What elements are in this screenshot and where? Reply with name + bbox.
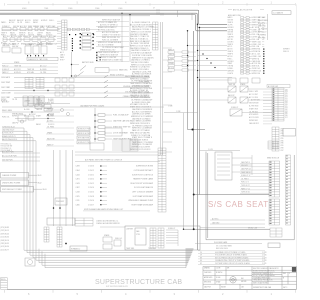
svg-text:1 C84 7: 1 C84 7 — [88, 204, 94, 206]
mid strip x45-75 rows — [46, 108, 74, 147]
svg-text:WIPER LO: WIPER LO — [258, 32, 267, 34]
seat wire rows — [240, 164, 269, 194]
svg-text:1 C84 4: 1 C84 4 — [88, 187, 94, 189]
svg-text:OIL PRE: OIL PRE — [40, 72, 46, 74]
left connector grids beside gauge rows — [25, 78, 44, 89]
svg-text:HORN RLY PWR: HORN RLY PWR — [78, 142, 91, 144]
left drop wire labels — [2, 126, 17, 141]
seat connector ladder upper — [269, 161, 280, 197]
svg-text:FUEL L: FUEL L — [1, 34, 6, 36]
svg-text:CRANE POWER ON INDICATOR: CRANE POWER ON INDICATOR — [123, 95, 150, 98]
svg-text:X17: X17 — [285, 117, 288, 119]
svg-text:IGN SW: IGN SW — [13, 26, 20, 28]
svg-text:C418: C418 — [76, 192, 80, 194]
svg-text:X11: X11 — [285, 106, 288, 108]
svg-text:ENGINE OIL PRESSURE GAGE: ENGINE OIL PRESSURE GAGE — [123, 85, 149, 88]
svg-text:W86: W86 — [281, 143, 284, 145]
svg-text:FUEL LV: FUEL LV — [283, 51, 289, 53]
svg-text:CTRL: CTRL — [136, 234, 140, 236]
left harness drop wires — [2, 128, 36, 260]
wire list note rows — [200, 251, 266, 265]
module internal wires — [100, 227, 178, 246]
mid-left small labels — [2, 101, 54, 119]
relay cluster K10 — [228, 86, 248, 116]
title block dark corner cell — [292, 267, 296, 272]
accessory branch fuse 2 — [94, 120, 130, 123]
svg-text:B+ FEE: B+ FEE — [48, 99, 54, 101]
ladder mid labels — [281, 128, 284, 152]
center column stub wires — [163, 48, 172, 152]
output circuit WINDSHIELD WASHER PUMP — [76, 199, 154, 202]
svg-text:S/S CAB SEAT: S/S CAB SEAT — [208, 200, 269, 209]
svg-text:59: 59 — [200, 255, 202, 257]
vertical bus drop D — [193, 31, 195, 229]
svg-text:FUEL L: FUEL L — [37, 44, 42, 46]
svg-text:J DOE: J DOE — [216, 268, 220, 270]
fuse panel rows — [228, 16, 265, 75]
svg-text:X65: X65 — [285, 113, 288, 115]
seat connector ladder lower — [269, 199, 280, 225]
svg-text:X30: X30 — [285, 115, 288, 117]
center column vertical pair — [160, 22, 162, 155]
svg-text:DOME LP: DOME LP — [231, 107, 238, 109]
connector grid C12 — [122, 139, 138, 151]
mid cluster circles — [61, 109, 70, 116]
wires into C12 — [112, 140, 122, 150]
svg-text:(285) W-35: (285) W-35 — [1, 243, 9, 245]
vertical stub x192 — [191, 13, 193, 20]
svg-text:LIGHTE: LIGHTE — [24, 101, 30, 103]
svg-text:TEMP S: TEMP S — [228, 54, 234, 56]
svg-text:SWITCHED ACC POWER: SWITCHED ACC POWER — [2, 188, 23, 191]
svg-text:FUEL LVL: FUEL LVL — [115, 238, 122, 240]
vertical stub x177 — [177, 10, 179, 17]
seat right tall ladder — [286, 155, 291, 225]
svg-text:WIPER: WIPER — [1, 99, 7, 101]
title block grid — [203, 267, 297, 290]
svg-text:OIL PRES: OIL PRES — [47, 115, 54, 117]
svg-text:FLOODLIGHT BEACON: FLOODLIGHT BEACON — [134, 186, 154, 189]
center column ladder top — [153, 22, 159, 50]
svg-text:HORN R: HORN R — [1, 101, 8, 103]
svg-text:IGN SW 1: IGN SW 1 — [241, 165, 248, 167]
svg-text:OIL PR: OIL PR — [37, 42, 43, 44]
svg-text:1 C84 2: 1 C84 2 — [88, 179, 94, 181]
gauge circuit row RACK TEMPERATURE GAGE — [1, 75, 150, 79]
svg-text:W46: W46 — [281, 140, 284, 142]
svg-text:WIPER LO 3 C70 DOOR S: WIPER LO 3 C70 DOOR S — [130, 149, 151, 151]
svg-text:MAIN DISC: MAIN DISC — [119, 69, 129, 72]
gauge circuit row FUEL GAGE — [1, 80, 150, 84]
svg-text:OIL PRES: OIL PRES — [47, 127, 54, 129]
ladder header box — [267, 85, 290, 88]
relay cluster feed wires — [200, 89, 273, 113]
svg-text:89: 89 — [200, 257, 202, 259]
svg-text:SYS 44 IGN SW: SYS 44 IGN SW — [1, 146, 13, 148]
svg-text:R SMITH: R SMITH — [216, 272, 222, 274]
svg-text:C498: C498 — [76, 166, 80, 168]
svg-text:WIPER W61: WIPER W61 — [249, 120, 258, 122]
pins under relay cluster — [27, 55, 44, 56]
box cluster y128-150 — [90, 128, 122, 150]
gauge circuit row CRANE POWER ON INDICATOR — [1, 95, 150, 99]
mid-right upper cluster — [228, 78, 260, 83]
lower-left component box — [47, 218, 75, 225]
svg-text:DIAGNOSTIC TAP CONN: DIAGNOSTIC TAP CONN — [28, 58, 48, 61]
svg-text:SUPERSTRUCTURE CAB: SUPERSTRUCTURE CAB — [95, 279, 182, 286]
svg-text:IGN SW: IGN SW — [12, 46, 19, 48]
component row 2 top-left — [3, 35, 57, 41]
svg-text:WIPER: WIPER — [12, 115, 18, 117]
main bus junction at y129 — [188, 128, 206, 130]
vertical bus drop C — [199, 28, 201, 195]
svg-text:HEATER POWER CABIN: HEATER POWER CABIN — [133, 178, 154, 181]
center label column text block — [130, 21, 155, 151]
svg-text:C463 DOME: C463 DOME — [1, 93, 11, 95]
svg-text:FUEL LVL: FUEL LVL — [2, 117, 10, 119]
svg-text:WIPER H: WIPER H — [283, 49, 289, 51]
svg-text:IGN SW: IGN SW — [228, 32, 234, 34]
sheet border top line — [7, 3, 295, 5]
aux bus wire short — [60, 15, 150, 17]
svg-text:RIGHT FRONT WORKLAMP: RIGHT FRONT WORKLAMP — [130, 182, 153, 185]
module connector B — [158, 228, 164, 248]
svg-text:HTR FAN: HTR FAN — [48, 25, 56, 28]
svg-text:C425: C425 — [76, 196, 80, 198]
main power bus wires from left edge — [0, 10, 227, 31]
battery bus feed vertical — [71, 52, 72, 77]
top zone numbers — [28, 1, 273, 5]
pin column P2 — [80, 33, 81, 49]
gauge circuit row ENGINE OIL PRESSURE GAGE — [1, 85, 150, 89]
accessory branch fuse 5 — [94, 138, 132, 141]
ladder pin fills upper — [273, 89, 275, 121]
svg-text:FUEL L: FUEL L — [228, 58, 233, 60]
svg-text:DOOR S: DOOR S — [48, 124, 54, 126]
output circuit SUPERVISOR HORN — [76, 165, 154, 167]
svg-text:64: 64 — [200, 260, 202, 262]
svg-text:TURN SIG W-43: TURN SIG W-43 — [2, 126, 15, 128]
lower-left wire tag rows — [1, 227, 9, 251]
svg-text:REF 80023411 SHEET 3 OF 8: REF 80023411 SHEET 3 OF 8 — [253, 273, 273, 275]
power source box CHASSIS POWER — [1, 173, 42, 179]
svg-text:ALT EXC W-75: ALT EXC W-75 — [2, 132, 13, 135]
pin column P4 — [96, 52, 97, 61]
cab controller box — [135, 228, 146, 245]
right small text block — [283, 49, 289, 53]
mid-right stub wires — [263, 92, 272, 124]
svg-text:DOOR SW SPARE: DOOR SW SPARE — [113, 132, 129, 135]
svg-text:(374) W-89: (374) W-89 — [1, 227, 9, 229]
module aux boxes — [103, 237, 121, 249]
svg-text:1 W09: 1 W09 — [118, 8, 123, 10]
svg-text:W98: W98 — [281, 148, 284, 150]
svg-text:HTR FAN: HTR FAN — [258, 16, 266, 19]
bottom harness bus lines — [65, 248, 193, 268]
svg-text:(368) W-16: (368) W-16 — [1, 240, 9, 242]
diagnostic connector label — [27, 57, 58, 61]
seat top wire — [200, 149, 240, 151]
gauge circuit row VOLTMETER L WATER TEMP — [1, 91, 150, 95]
vertical bus drop B — [197, 24, 199, 250]
svg-text:CAB GND: CAB GND — [258, 25, 266, 28]
svg-text:TURN SI 27: TURN SI 27 — [241, 185, 250, 187]
title block right dense rows — [253, 267, 290, 284]
svg-text:DOME L: DOME L — [48, 101, 54, 103]
svg-text:6 W03: 6 W03 — [22, 8, 27, 10]
svg-text:IGN SW: IGN SW — [228, 20, 234, 22]
pin row y34 — [69, 34, 94, 35]
revision box bottom-left corner — [1, 278, 8, 290]
heading bracket fuse panel — [228, 8, 264, 11]
svg-text:SUP 1/45 PROD DRW 80-123: SUP 1/45 PROD DRW 80-123 — [106, 286, 128, 288]
right edge vertical line — [267, 14, 269, 40]
fuse feed junction dots — [187, 45, 216, 71]
svg-text:OIL PR: OIL PR — [17, 22, 23, 24]
svg-text:1 C89: 1 C89 — [262, 260, 266, 262]
svg-text:START SIG TEMP SN: START SIG TEMP SN — [113, 126, 131, 129]
svg-text:X61: X61 — [285, 98, 288, 100]
svg-text:TURN S: TURN S — [19, 34, 25, 36]
seat box inner marks — [217, 155, 230, 175]
svg-text:TURN SIG: TURN SIG — [148, 248, 156, 250]
svg-text:LIGHTE: LIGHTE — [228, 73, 233, 75]
ladder grid left of module — [75, 218, 93, 226]
svg-text:HORN R: HORN R — [46, 44, 53, 46]
switch stack S10 — [23, 90, 49, 119]
svg-text:1 C84 3: 1 C84 3 — [88, 166, 94, 168]
svg-text:OIL PRE 8: OIL PRE 8 — [241, 178, 249, 180]
right sheet border faint — [295, 4, 297, 289]
top-left upper label texture — [1, 19, 54, 24]
svg-text:CHECKED: CHECKED — [204, 272, 212, 274]
output circuit LEFT CONSOLE DIMMER — [76, 191, 154, 193]
note header tiny rows — [216, 245, 232, 250]
svg-text:W47: W47 — [281, 150, 284, 152]
svg-text:TEMP S: TEMP S — [1, 33, 7, 35]
accessory branch fuse 1 — [94, 114, 129, 117]
svg-text:X90: X90 — [285, 109, 288, 111]
svg-text:WIPER HI: WIPER HI — [168, 63, 175, 65]
svg-text:C480: C480 — [76, 204, 80, 206]
fuse feed stubs from bus — [188, 46, 228, 71]
svg-text:X53: X53 — [285, 91, 288, 93]
bus tick labels mid — [157, 9, 163, 16]
svg-text:BRAKE SW 50 START SIG: BRAKE SW 50 START SIG — [102, 59, 123, 62]
svg-text:TEMP S: TEMP S — [228, 44, 234, 46]
svg-text:C444: C444 — [76, 174, 80, 176]
mid component rows left of fuse panel — [168, 48, 196, 71]
svg-text:ACC RLY: ACC RLY — [20, 25, 28, 28]
svg-text:X91: X91 — [285, 95, 288, 97]
svg-text:(639) W-40: (639) W-40 — [1, 233, 9, 235]
svg-text:C455 STAR: C455 STAR — [1, 96, 11, 99]
power source box SWITCHED ACC POWER — [1, 187, 47, 193]
svg-text:TEMP S: TEMP S — [228, 34, 234, 36]
svg-text:RADIO MEM: RADIO MEM — [2, 109, 12, 112]
relay control switch row — [72, 72, 136, 78]
svg-text:X39: X39 — [285, 89, 288, 91]
svg-text:TEMP S: TEMP S — [228, 51, 234, 53]
svg-text:RELAY CONTROL: RELAY CONTROL — [110, 73, 124, 76]
svg-text:W41: W41 — [281, 145, 284, 147]
svg-text:GROVE: GROVE — [241, 281, 246, 283]
svg-text:PWR DIST: PWR DIST — [56, 201, 64, 203]
output circuit SLEW HOIST CONTROLS — [76, 174, 154, 176]
svg-text:DOME LP: DOME LP — [168, 228, 175, 230]
svg-text:ANT GL A/C PLUS HTR: ANT GL A/C PLUS HTR — [233, 8, 253, 11]
svg-text:WIPER: WIPER — [33, 20, 39, 22]
svg-text:IGN SW: IGN SW — [28, 34, 34, 36]
svg-text:SLEW HOIST CONTROLS: SLEW HOIST CONTROLS — [132, 174, 154, 176]
svg-text:C411: C411 — [76, 200, 80, 202]
svg-text:HTR F: HTR F — [60, 60, 65, 62]
svg-text:1 C88: 1 C88 — [176, 111, 180, 113]
svg-text:DOME LP: DOME LP — [2, 69, 9, 71]
power source box UNSWITCHED POWER — [1, 180, 42, 186]
svg-text:LIGHTE: LIGHTE — [37, 33, 43, 35]
svg-text:LEFT REAR WORKLAMP: LEFT REAR WORKLAMP — [133, 195, 154, 198]
svg-text:FUEL L W33: FUEL L W33 — [249, 91, 258, 93]
svg-text:1 C86: 1 C86 — [262, 255, 266, 257]
svg-text:W-02: W-02 — [38, 182, 42, 184]
vertical harness line x130 — [129, 14, 130, 62]
svg-text:1 C84 2: 1 C84 2 — [88, 170, 94, 172]
output circuit RIGHT FRONT WORKLAMP — [76, 182, 154, 185]
seat inner wire y227 — [200, 226, 265, 228]
wire row y90 — [2, 90, 75, 92]
svg-text:UNSWITCHED POWER: UNSWITCHED POWER — [2, 183, 21, 185]
svg-text:1 C84 5: 1 C84 5 — [88, 192, 94, 194]
svg-text:1 C81: 1 C81 — [262, 263, 266, 265]
left texture y99-126 — [1, 98, 54, 126]
svg-text:TEMP SN: TEMP SN — [27, 69, 35, 71]
left edge label rows y143-151 — [1, 142, 13, 152]
svg-text:SWITCHGEAR/CAB LAMP/DRIVING PA: SWITCHGEAR/CAB LAMP/DRIVING PANEL LIST — [84, 208, 124, 211]
svg-text:X19: X19 — [285, 108, 288, 110]
svg-text:B+ FEE W33: B+ FEE W33 — [249, 106, 258, 108]
svg-text:FUEL LV: FUEL LV — [2, 66, 9, 68]
vertical harness line x122 — [121, 13, 122, 62]
staircase elbow wires — [24, 249, 65, 268]
svg-text:OIL PR: OIL PR — [12, 99, 18, 101]
svg-text:7 W01: 7 W01 — [44, 8, 49, 10]
accessory branch fuse 3 — [94, 126, 131, 129]
cab seat enclosure outline — [206, 152, 294, 240]
svg-text:(419) W-90: (419) W-90 — [1, 246, 9, 248]
seat feed wire lower — [183, 228, 270, 230]
module labels — [104, 228, 175, 250]
svg-text:OIL PR W45: OIL PR W45 — [249, 111, 258, 113]
component row 1 top-left — [2, 25, 60, 31]
svg-text:C465 TEMP: C465 TEMP — [1, 82, 11, 84]
approval stamp box mid-bottom — [25, 258, 35, 266]
top-left mid label texture — [1, 32, 52, 37]
cluster top wires — [197, 77, 232, 81]
svg-text:TEMP SNDR ACC RLY: TEMP SNDR ACC RLY — [113, 138, 132, 141]
svg-text:CHASSIS POWER: CHASSIS POWER — [2, 174, 17, 177]
svg-text:BRAKE SW W-73: BRAKE SW W-73 — [2, 135, 15, 138]
svg-text:1 C83: 1 C83 — [262, 257, 266, 259]
svg-text:HORN RL: HORN RL — [14, 72, 21, 74]
label box right edge — [283, 129, 296, 137]
svg-text:CAB MAIN PWR FEED 10 AWG: CAB MAIN PWR FEED 10 AWG — [80, 104, 105, 107]
svg-text:X35: X35 — [285, 93, 288, 95]
upstream ladder small A — [44, 227, 49, 242]
svg-text:VOLTMETER L WATER TEMP: VOLTMETER L WATER TEMP — [125, 91, 150, 94]
svg-text:HORN R: HORN R — [228, 27, 235, 29]
svg-text:D LEE: D LEE — [216, 277, 220, 279]
svg-text:HORN R: HORN R — [41, 20, 48, 22]
svg-text:SHT 3: SHT 3 — [283, 287, 287, 289]
svg-text:BATTERY BUS: BATTERY BUS — [82, 61, 94, 64]
svg-text:HTR FAN: HTR FAN — [258, 36, 266, 39]
svg-text:TURN SIG: TURN SIG — [258, 34, 267, 36]
output circuit RIGHT REAR WORKLAMP — [76, 203, 154, 206]
right edge label rows top — [258, 16, 268, 39]
svg-text:HORN RLY PWR: HORN RLY PWR — [78, 129, 91, 131]
svg-text:X54: X54 — [285, 100, 288, 102]
output circuit LEFT REAR WORKLAMP — [76, 195, 154, 198]
heater component cluster — [18, 105, 52, 124]
svg-text:MH: MH — [241, 278, 243, 280]
svg-text:B: B — [283, 277, 284, 279]
svg-text:B+ FEE: B+ FEE — [24, 109, 30, 111]
svg-text:W-03: W-03 — [43, 189, 47, 191]
svg-text:C443: C443 — [76, 183, 80, 185]
svg-text:IGN SW W49: IGN SW W49 — [249, 103, 259, 105]
svg-text:TEMP SN: TEMP SN — [228, 84, 236, 86]
svg-text:WINDSHIELD WASHER PUMP: WINDSHIELD WASHER PUMP — [128, 199, 153, 202]
svg-text:20: 20 — [200, 252, 202, 254]
svg-text:TEMP S: TEMP S — [28, 44, 34, 46]
seat aux grid bottom — [270, 228, 282, 237]
svg-text:(412) W-77: (412) W-77 — [1, 249, 9, 251]
accessory branch fuse 4 — [94, 132, 128, 135]
label block bottom pins — [100, 57, 101, 60]
svg-text:TEMP S: TEMP S — [228, 22, 234, 24]
mid feeder verticals — [54, 150, 73, 226]
right connector ladder mid — [272, 127, 279, 151]
small box row x67-90 — [67, 28, 100, 31]
top-middle dense label rows — [98, 19, 124, 62]
svg-text:CAB GND W-29: CAB GND W-29 — [2, 129, 14, 132]
bus junction dots — [187, 24, 200, 32]
svg-text:W-01: W-01 — [38, 175, 42, 177]
svg-text:C430 BACK: C430 BACK — [1, 76, 11, 79]
pin column P1 — [72, 38, 73, 51]
svg-text:CAB PWR CAB GND: CAB PWR CAB GND — [113, 120, 130, 123]
svg-text:1 C84 6: 1 C84 6 — [88, 200, 94, 202]
switchgear footer row — [83, 208, 150, 211]
right connector ladder upper — [272, 88, 284, 121]
vertical bus drop A — [187, 31, 189, 130]
harness label box — [70, 246, 87, 251]
svg-text:800367: 800367 — [221, 287, 226, 289]
seat lower wires — [210, 220, 265, 224]
seat lower wire labels — [212, 217, 258, 229]
top-left lower label texture — [1, 41, 53, 46]
svg-text:W HARN 12: W HARN 12 — [71, 248, 80, 251]
aux panel header rows — [75, 152, 160, 162]
svg-text:12B: 12B — [241, 287, 244, 289]
svg-text:FUEL LV 4: FUEL LV 4 — [241, 182, 249, 184]
reference box top-right — [272, 11, 291, 15]
svg-text:TURN SI 16: TURN SI 16 — [241, 192, 250, 194]
seat feed wire upper — [193, 194, 269, 196]
svg-text:MIRROR: MIRROR — [19, 33, 26, 35]
svg-text:B+ FEED: B+ FEED — [40, 69, 48, 71]
